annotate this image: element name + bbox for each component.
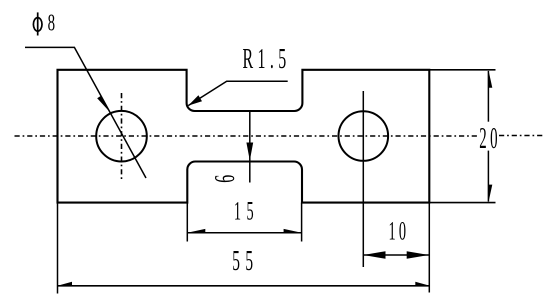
svg-text:55: 55: [232, 245, 258, 276]
svg-text:20: 20: [479, 121, 501, 155]
dimension 6 text (rotated): [209, 175, 241, 183]
hole left circle: [96, 111, 147, 162]
dimension 20 extension lines: [429, 70, 495, 203]
dimension 10 text: [388, 216, 409, 246]
dimension 6 line and arrow: [246, 112, 253, 183]
svg-text:6: 6: [209, 175, 241, 183]
dimension 15 line and arrows: [187, 229, 301, 233]
svg-text:10: 10: [388, 216, 409, 246]
left circle vertical centerline (dash-dot): [121, 93, 123, 180]
leader R1.5: [188, 81, 288, 105]
leader phi8: [25, 47, 146, 178]
dimension 55 extension lines: [58, 203, 430, 294]
dimension 20 text: [479, 121, 501, 155]
right circle vertical line / extension line for dim 10: [362, 91, 364, 267]
plate outline with top and bottom notches: [58, 70, 430, 203]
dimension 20 line and arrows: [488, 70, 492, 203]
svg-text:R1.5: R1.5: [243, 43, 291, 75]
dimension 15 text: [234, 196, 259, 226]
label phi8 (diameter symbol drawn + digit 8): [33, 10, 55, 36]
label R1.5: [243, 43, 291, 75]
hole right circle: [339, 111, 389, 161]
svg-text:8: 8: [48, 10, 55, 36]
dimension 55 text: [232, 245, 258, 276]
dimension 15 extension lines: [187, 203, 301, 242]
horizontal centerline (dash-dot): [15, 135, 546, 138]
dimension 55 line and arrows: [58, 282, 430, 286]
svg-text:15: 15: [234, 196, 259, 226]
dimension 10 line and arrows: [363, 251, 429, 259]
